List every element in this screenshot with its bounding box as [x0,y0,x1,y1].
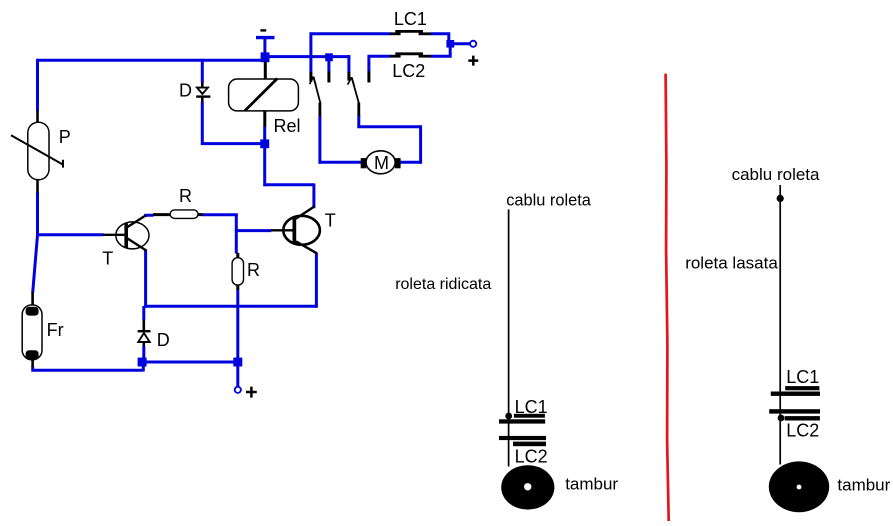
svg-text:LC1: LC1 [394,9,427,29]
svg-text:T: T [102,248,113,268]
svg-text:Fr: Fr [47,320,64,340]
svg-text:roleta lasata: roleta lasata [685,253,778,272]
svg-text:cablu roleta: cablu roleta [732,165,820,184]
svg-text:LC2: LC2 [515,446,548,466]
svg-text:R: R [247,260,260,280]
svg-text:P: P [59,127,71,147]
svg-text:roleta ridicata: roleta ridicata [395,276,491,293]
svg-text:T: T [325,210,336,230]
svg-text:D: D [157,330,170,350]
svg-text:M: M [374,153,389,173]
svg-text:Rel: Rel [274,116,301,136]
svg-text:LC2: LC2 [786,421,819,441]
svg-text:LC2: LC2 [392,61,425,81]
svg-text:tambur: tambur [565,474,618,493]
svg-text:D: D [179,80,192,100]
svg-text:R: R [179,186,192,206]
svg-text:LC1: LC1 [515,397,548,417]
svg-text:cablu roleta: cablu roleta [506,192,592,210]
svg-text:tambur: tambur [837,476,890,495]
svg-text:LC1: LC1 [786,367,819,387]
